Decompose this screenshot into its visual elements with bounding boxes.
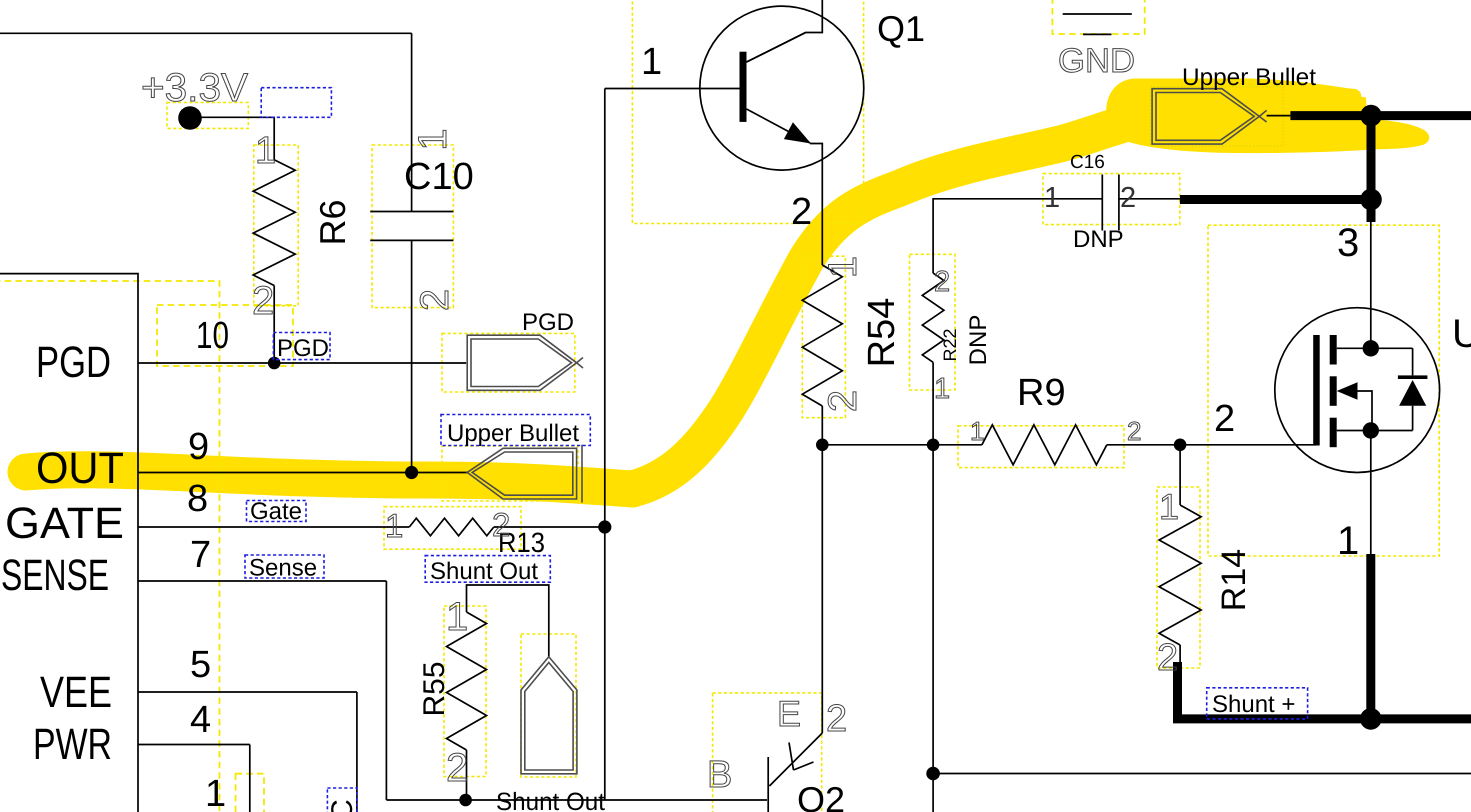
MOSFET U source junction dot [1363,422,1379,438]
svg-text:2: 2 [821,390,865,412]
net alias Shunt Out [425,556,550,585]
wire OUT pin horizontal [138,472,467,474]
svg-text:U: U [1452,312,1471,356]
svg-text:2: 2 [252,279,274,323]
svg-text:1: 1 [205,773,226,812]
svg-text:1: 1 [970,416,984,446]
selection box around resistor R55 [444,606,486,777]
junction dot OUT / C10 [405,466,418,479]
wire R55 pin 1 to Shunt Out bullet [467,585,549,657]
wire PWR vertical down [249,745,251,812]
svg-text:1: 1 [1044,182,1060,214]
svg-text:2: 2 [1157,637,1178,679]
MOSFET U body diode cathode bar [1398,375,1428,379]
svg-text:1: 1 [821,256,865,278]
resistor R13 body [409,518,494,536]
selection box around MOSFET U [1208,225,1439,556]
svg-text:PWR: PWR [33,720,112,769]
net alias C (rotated, clipped at bottom) [326,788,359,812]
selection box around capacitor C16 [1043,174,1180,225]
resistor R22 body [922,273,944,362]
resistor R54 body [802,265,842,406]
Shunt Out bullet (points up) [521,657,577,774]
MOSFET U drain connection [1337,347,1413,349]
resistor R6 body [253,160,295,286]
svg-text:R22: R22 [940,328,960,361]
wire C10 bottom vertical to OUT net [411,240,413,472]
svg-text:E: E [777,693,801,734]
selection box around capacitor C10 [372,145,453,308]
thick wire R14 pin 2 down [1173,662,1182,719]
svg-text:2: 2 [413,289,457,311]
junction dot R22 / mid net [927,439,940,452]
selection box around resistor R22 [910,254,956,390]
svg-text:1: 1 [446,595,468,639]
wire R22 pin 1 stub [932,362,934,445]
transistor Q2 base bar [767,757,769,812]
selection box around connector pin 10 [157,305,293,366]
svg-text:1: 1 [411,128,455,150]
PGD bullet (points right) [467,335,583,390]
wire C16 pin 2 stub [1119,198,1180,200]
junction dot R9 / R14 [1174,439,1187,452]
MOSFET U gate bar [1313,335,1320,446]
wire R22 net down to bottom net [932,445,934,812]
MOSFET U body arrowhead [1337,382,1358,399]
net alias Shunt + [1207,688,1308,719]
wire SENSE vertical down [385,581,387,800]
dotted selection box around top Upper Bullet [1150,87,1283,146]
junction dot R55 / bottom net [459,794,472,807]
MOSFET U body diode triangle [1399,380,1426,406]
MOSFET U circle [1275,308,1440,473]
wire PWR pin horizontal [138,744,250,746]
svg-text:1: 1 [641,41,662,83]
capacitor C16 plates [1102,175,1119,231]
wire Q1 base horizontal [605,88,740,90]
svg-text:DNP: DNP [1073,226,1124,253]
svg-text:Upper Bullet: Upper Bullet [447,420,579,447]
transistor Q1 collector diagonal [747,33,806,63]
wire C10 top vertical [411,33,413,211]
selection box around Shunt Out bullet [521,634,576,777]
svg-text:R6: R6 [312,199,353,245]
top Upper Bullet (points right) [1152,89,1267,144]
selection box around transistor Q1 [632,0,863,224]
svg-text:9: 9 [188,426,209,468]
wire bottom horizontal to Q2 base [386,799,767,801]
wire GATE pin to R13 pin 1 [138,526,409,528]
wire top +3.3V rail horizontal [0,32,412,34]
selection box around PGD bullet [442,333,575,392]
empty net alias box near +3.3V [261,88,331,118]
selection box around resistor R13 [384,507,521,550]
svg-text:1: 1 [934,373,950,405]
svg-text:2: 2 [492,506,510,543]
svg-text:R9: R9 [1017,372,1066,414]
net alias Sense [245,555,324,582]
transistor Q2 emitter diagonal [769,733,822,786]
selection box around transistor Q2 [713,693,822,812]
svg-text:1: 1 [1159,486,1179,527]
junction dot thick bus top [1360,105,1382,127]
svg-text:2: 2 [446,746,468,790]
svg-text:1: 1 [385,507,403,544]
transistor Q1 emitter diagonal [747,109,811,143]
highlighter swoosh up to Upper Bullet [632,117,1152,489]
svg-text:C16: C16 [1070,152,1105,173]
selection box around resistor R6 [254,145,298,306]
MOSFET U source connection [1337,430,1413,432]
thick wire vertical bus at right [1367,111,1376,222]
svg-text:PGD: PGD [522,309,574,336]
svg-text:R54: R54 [861,298,903,368]
wire Q2 emitter vertical [821,445,823,733]
thick wire Shunt+ horizontal [1173,714,1471,723]
wire R6 pin 2 down to PGD net [273,286,275,364]
svg-text:2: 2 [1214,398,1235,440]
svg-text:4: 4 [190,699,211,741]
wire PGD pin 10 horizontal [138,362,466,364]
wire MOSFET source vertical [1370,431,1372,555]
highlighter blob over top Upper Bullet [1106,79,1429,154]
svg-text:Upper Bullet: Upper Bullet [1182,64,1316,91]
svg-text:Q2: Q2 [797,779,845,812]
wire mid horizontal net R54 to MOSFET gate [822,444,1316,446]
svg-text:R14: R14 [1215,549,1253,611]
svg-text:PGD: PGD [277,335,329,362]
svg-text:Shunt Out: Shunt Out [496,788,605,812]
resistor R14 pin 2 elbow [1179,645,1181,662]
GND symbol bars [1063,14,1132,34]
selection box around connector pin 1 stub [236,774,264,812]
wire bottom right horizontal net [933,773,1471,775]
wire R13 pin 2 to vertical net [494,526,605,528]
svg-text:Gate: Gate [250,498,302,525]
junction dot thick bus Shunt+ [1360,708,1382,730]
junction dot GATE net / vertical [598,520,611,533]
svg-text:2: 2 [1127,416,1141,446]
junction dot PGD / R6 [268,357,281,370]
wire vertical net Q1 base to bottom [604,89,606,801]
svg-text:1: 1 [1337,519,1359,563]
wire SENSE pin horizontal [138,580,386,582]
junction dot bottom right net [926,767,940,781]
MOSFET U channel segments [1330,335,1337,365]
net alias PGD [273,333,330,363]
MOSFET U drain junction dot [1363,340,1379,356]
+3.3V power symbol dot [178,106,202,130]
svg-text:GND: GND [1058,42,1135,80]
connector block outline [0,274,138,812]
svg-text:DNP: DNP [965,315,992,366]
svg-text:B: B [707,754,732,796]
svg-text:8: 8 [187,478,208,520]
svg-text:1: 1 [255,130,276,172]
wire R54 pin 2 stub to mid net [821,406,823,445]
svg-text:VEE: VEE [40,668,112,717]
selection box around GND symbol [1052,0,1144,34]
selection box around resistor R9 [958,426,1124,468]
svg-text:OUT: OUT [36,444,124,493]
svg-text:Shunt Out: Shunt Out [430,558,538,585]
capacitor C10 plates [370,212,453,241]
highlighter stroke over OUT net [26,470,632,489]
svg-text:Shunt +: Shunt + [1212,691,1295,718]
svg-text:R55: R55 [418,661,451,716]
wire top bullet tip to thick net [1267,115,1291,117]
wire VEE vertical down [356,692,358,812]
middle Upper Bullet (points left) [467,445,582,503]
thick wire MOSFET source down [1366,554,1375,719]
selection box around resistor R14 [1157,487,1200,668]
thick wire C16 net to bus [1180,195,1371,204]
svg-text:C10: C10 [404,156,474,198]
selection box around +3.3V power dot [167,103,248,129]
selection box around middle Upper Bullet [442,446,578,501]
svg-text:2: 2 [791,191,812,233]
wire Q1 emitter to R54 [810,144,822,266]
svg-text:10: 10 [196,315,229,357]
svg-text:7: 7 [190,534,211,576]
transistor Q1 emitter arrowhead [784,122,811,143]
wire R55 pin 2 stub [466,750,468,800]
selection box around connector block [0,281,220,812]
svg-text:C: C [326,799,359,812]
resistor R14 body [1159,505,1201,645]
transistor Q1 circle [700,6,864,170]
MOSFET U body diode leads [1412,348,1414,430]
svg-text:2: 2 [934,266,950,298]
wire from +3.3V dot to R6 pin 1 [197,117,274,160]
resistor R9 body [982,425,1107,465]
MOSFET U body arrow line [1356,391,1372,431]
net alias Upper Bullet [441,415,590,448]
junction dot thick bus C16 net [1360,189,1382,211]
wire MOSFET drain vertical to junction [1370,222,1372,348]
net alias Gate [247,498,307,525]
svg-text:GATE: GATE [5,499,124,548]
transistor Q1 base bar [740,52,747,122]
wire Q1 collector [747,0,823,62]
wire VEE pin horizontal [138,691,357,693]
svg-text:+3.3V: +3.3V [141,66,248,110]
junction dot R54 / mid net [816,439,829,452]
svg-text:2: 2 [826,698,847,740]
resistor R55 body [447,612,487,750]
svg-text:PGD: PGD [36,338,111,387]
selection box around resistor R54 [802,256,845,418]
svg-text:Q1: Q1 [877,8,925,49]
svg-text:2: 2 [1120,182,1136,214]
transistor Q2 emitter open arrowhead [789,743,814,771]
wire R14 pin 1 stub [1179,445,1181,505]
svg-text:5: 5 [190,644,211,686]
svg-text:Sense: Sense [249,555,317,582]
thick wire top right bus [1290,111,1471,120]
svg-text:3: 3 [1337,221,1359,265]
svg-text:SENSE: SENSE [1,551,109,600]
wire C16 pin 1 to R22 pin 2 [933,199,1102,273]
